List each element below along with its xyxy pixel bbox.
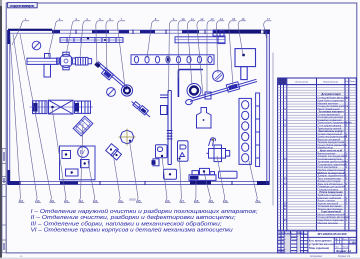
svg-text:Обозначение: Обозначение [295,81,309,83]
svg-text:Машина моечная: Машина моечная [318,222,339,225]
title block texts [278,232,304,254]
bottle stand S1 [197,108,212,129]
big square block B1 [235,49,256,80]
svg-text:25: 25 [138,199,142,203]
svg-text:22: 22 [80,199,84,203]
svg-text:28: 28 [195,199,199,203]
nut circle at conveyor end [121,85,132,96]
machine G1 (left of partition) [156,145,168,158]
svg-text:Прим.: Прим. [350,81,356,83]
washing machine W1: left hatched block [33,101,48,114]
svg-text:Провер.: Провер. [278,239,286,241]
svg-text:Копировал: Копировал [310,255,323,258]
svg-text:Кон. автосцепного: Кон. автосцепного [309,240,332,243]
floor drain symbol 1 [32,41,41,50]
svg-text:27: 27 [181,199,185,203]
svg-text:II – Отделение очистки, разбор: II – Отделение очистки, разборки и дефек… [31,215,237,221]
rack 2 (top right) [175,31,225,44]
floor drain symbol 2 [107,88,116,97]
machine M2 (motor with flange) [207,145,230,162]
svg-text:Лит.: Лит. [335,239,339,241]
svg-text:Утверд.: Утверд. [278,252,286,254]
spec table row entries [284,92,352,225]
title block grid [278,231,357,253]
small rect in room RM1 [205,92,211,99]
plain rect P1 [219,171,238,178]
svg-text:21: 21 [65,199,69,203]
spec table header texts [278,79,286,85]
diamond stools D1 [106,144,122,160]
svg-text:24: 24 [120,199,124,203]
svg-text:11: 11 [191,17,194,21]
svg-text:16: 16 [242,17,246,21]
tilted bench T1 [73,116,93,136]
vertical oval rack R4 [239,98,251,164]
svg-text:14: 14 [220,17,224,21]
margin cell text smudges [3,152,4,161]
svg-text:Дата: Дата [301,233,305,235]
washing machine W1: center X chamber [49,100,74,114]
rounded box P2 [164,169,177,179]
svg-text:Н.контр.: Н.контр. [278,249,286,251]
outer face line right of wall [272,53,274,206]
svg-text:Петров: Петров [291,239,299,241]
svg-text:Масса: Масса [343,239,348,241]
svg-text:30000: 30000 [129,199,136,202]
svg-text:IV: IV [80,150,85,156]
svg-text:18: 18 [20,199,24,203]
svg-text:VI – Отделение правки корпусов: VI – Отделение правки корпусов и деталей… [31,226,233,233]
svg-text:Формат А1: Формат А1 [336,249,352,253]
spec table row lines [278,87,357,229]
scan edge left [0,6,2,259]
callout leaders to bottom numbers [10,34,257,202]
fan symbol [213,71,224,82]
svg-text:26: 26 [166,199,170,203]
washing machine axis [30,106,94,108]
bottom machine row M3 [189,168,216,180]
svg-text:Формат А1: Формат А1 [338,255,351,258]
svg-text:13: 13 [210,17,214,21]
svg-text:устройства вагонов.: устройства вагонов. [309,243,335,246]
oval rack R3 [131,55,214,65]
svg-text:19: 19 [37,199,41,203]
svg-text:10: 10 [182,17,186,21]
RM2 bench 3 [66,169,79,176]
stamp box top-left [8,3,38,8]
svg-text:31: 31 [257,199,261,203]
svg-text:Документация: Документация [321,92,341,96]
conveyor C1 (diagonal, upper) [96,62,129,90]
svg-text:29: 29 [210,199,214,203]
hand tool stand [209,138,216,146]
RM2 circle IV [78,147,89,158]
svg-text:23: 23 [94,199,98,203]
room RM2 outline [60,146,96,180]
svg-text:КП.190304.65.00.000: КП.190304.65.00.000 [318,232,347,236]
thin bar rack R5 [256,93,260,167]
svg-text:12: 12 [200,17,204,21]
partition wall [160,91,173,165]
scan edge bottom [0,258,360,259]
spec table grid [278,78,357,231]
rack 1 (top, with dividers) [60,38,123,43]
top wall band [8,29,270,34]
ring machine in room RM1 [187,84,201,98]
svg-text:Листов: Листов [343,246,349,248]
machine M1: bench with cross-wheel [27,52,75,77]
conveyor C2 (diagonal, lower right) [190,79,257,101]
svg-text:III – Отделение сборки, наплав: III – Отделение сборки, наплавки и механ… [31,220,223,227]
left wall [8,30,10,185]
svg-text:20: 20 [51,199,55,203]
svg-text:I – Отделение наружной очистки: I – Отделение наружной очистки и разборк… [31,208,259,215]
callout leaders to top numbers [12,21,267,96]
svg-text:План отделения: План отделения [309,247,330,250]
svg-text:15: 15 [232,17,236,21]
svg-text:Наименование: Наименование [323,81,339,83]
svg-text:Т.контр.: Т.контр. [278,242,286,244]
RM2 bench 1 [62,151,71,159]
svg-text:Лист: Лист [335,246,339,248]
svg-text:17: 17 [267,17,271,21]
machine M1 hatched block [76,57,92,65]
RM2 bench 2 [81,160,90,168]
svg-text:с подлинника верно: с подлинника верно [10,4,36,8]
right wall [267,31,270,185]
octagon turntable O1 [119,129,136,146]
svg-text:Иванов: Иванов [291,236,299,238]
svg-text:30: 30 [224,199,228,203]
bottom wall [8,181,270,185]
room RM1 walls [178,70,203,98]
svg-text:1:100: 1:100 [349,240,356,244]
drill assembly (diagonal rod with blocks) [132,102,151,118]
control cabinet [178,141,189,161]
washing machine W1: right hatched block [75,101,91,113]
left margin cells [2,149,6,253]
bracket with dark fill [152,159,160,166]
svg-text:Разраб.: Разраб. [278,236,286,238]
svg-text:№ докум.: № докум. [285,232,293,235]
